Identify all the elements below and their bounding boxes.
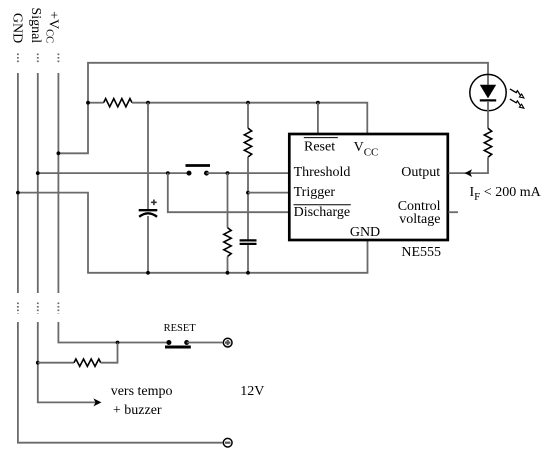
- svg-text:Output: Output: [401, 165, 440, 180]
- node junction dot x=227.5 at bottom rail: [226, 271, 230, 275]
- svg-text:RESET: RESET: [164, 323, 197, 334]
- wire GND vertical line upper: [17, 73, 19, 293]
- resistor horizontal lower: [74, 359, 101, 366]
- svg-text:Discharge: Discharge: [294, 205, 351, 220]
- wire resistor row y=362.7 left: [38, 362, 74, 364]
- wire threshold resistor branch lower: [227, 257, 229, 273]
- wire threshold resistor branch upper: [227, 173, 229, 228]
- wire resistor top rail row: [88, 102, 104, 104]
- terminal minus circle: [223, 438, 232, 447]
- resistor vertical at x=248: [244, 128, 251, 157]
- pushbutton S1 terminal dot left: [187, 171, 192, 176]
- pushbutton RESET terminal dot right: [184, 340, 189, 345]
- wire +Vcc branch to top rail: [58, 63, 488, 154]
- node junction dot at x=317.9 y=102.7 (Reset pin branch): [316, 101, 320, 105]
- node junction dot Signal line y=173.1: [36, 171, 40, 175]
- wire Reset pin stub: [317, 103, 319, 133]
- node junction dot +Vcc line: [57, 151, 61, 155]
- wire capacitor C2 lower: [247, 245, 249, 273]
- wire Signal branch Threshold row left part: [38, 172, 189, 174]
- wire electrolytic capacitor branch upper: [147, 103, 149, 209]
- pushbutton RESET contact bar: [165, 346, 191, 349]
- svg-text:+ buzzer: + buzzer: [113, 403, 162, 418]
- wire resistor down and left to Output pin: [449, 157, 489, 173]
- LED light arrow 1: [510, 89, 524, 98]
- wire +Vcc line lower to RESET button: [58, 322, 168, 343]
- capacitor C2 bottom plate: [240, 243, 257, 245]
- LED D1 triangle: [480, 85, 496, 99]
- wire Trigger row to NE555: [248, 192, 289, 194]
- wire resistor to vertical x=117.5: [101, 343, 118, 363]
- node junction dot at x=88 y=102.7: [86, 101, 90, 105]
- node junction dot at x=167.8 y=173.1: [166, 171, 170, 175]
- wire Control voltage stub: [449, 211, 459, 213]
- wire GND line lower to minus terminal: [18, 322, 223, 443]
- wire +Vcc input line dotted break top: [57, 54, 59, 64]
- node junction dot electrolytic cap at bottom rail: [146, 271, 150, 275]
- wire Signal line dotted break lower: [37, 303, 39, 314]
- wire GND branch row y=192.6 to bottom rail: [18, 193, 368, 273]
- node junction dot at x=227.5 y=173.1: [226, 171, 230, 175]
- svg-text:Signal: Signal: [28, 7, 43, 43]
- pushbutton S1 terminal dot right: [204, 171, 209, 176]
- svg-text:IF < 200 mA: IF < 200 mA: [470, 185, 542, 203]
- svg-text:voltage: voltage: [399, 212, 440, 227]
- capacitor C1 electrolytic top plate: [139, 209, 158, 211]
- resistor vertical at x=227.5: [224, 228, 231, 257]
- wire LED to series resistor: [487, 101, 489, 128]
- wire Signal vertical line upper: [37, 73, 39, 293]
- svg-text:12V: 12V: [240, 384, 264, 399]
- wire Threshold row right part to NE555: [207, 172, 290, 174]
- svg-text:GND: GND: [350, 225, 380, 240]
- wire GND line dotted break lower: [17, 303, 19, 314]
- capacitor C1 electrolytic bottom curved plate: [139, 213, 157, 217]
- svg-text:vers tempo: vers tempo: [111, 384, 173, 399]
- node junction dot Trigger row x=248: [246, 191, 250, 195]
- wire Signal line lower with junction: [38, 322, 97, 402]
- wire from resistor to Vcc pin of NE555: [132, 103, 367, 133]
- arrowhead vers tempo pointing right: [93, 398, 101, 406]
- wire +Vcc line dotted break lower: [57, 303, 59, 314]
- node junction dot x=117.5 y=342.5: [116, 341, 120, 345]
- arrowhead on Output wire pointing left: [465, 169, 473, 177]
- LED light arrow 2: [510, 99, 524, 108]
- node junction dot x=248 at bottom rail: [246, 271, 250, 275]
- wire GND input line dotted break top: [17, 54, 19, 64]
- svg-text:GND: GND: [9, 13, 24, 43]
- node junction dot at x=248 y=102.7: [246, 101, 250, 105]
- svg-text:Trigger: Trigger: [294, 185, 336, 200]
- capacitor C1 plus sign: [151, 200, 157, 206]
- wire +Vcc vertical line upper: [57, 73, 59, 293]
- LED D1 circle: [470, 74, 506, 110]
- IC U1 NE555 box: [289, 134, 448, 240]
- pushbutton RESET terminal dot left: [166, 340, 171, 345]
- LED D1 cathode bar: [480, 99, 496, 101]
- resistor horizontal top: [104, 99, 132, 107]
- resistor LED series vertical: [484, 128, 491, 157]
- terminal plus circle: [223, 338, 232, 347]
- svg-text:Reset: Reset: [304, 140, 335, 155]
- node junction dot at x=148 y=102.7: [146, 101, 150, 105]
- node junction dot Signal lower y=362.7: [36, 361, 40, 365]
- node junction dot GND line y=192.6: [16, 191, 20, 195]
- wire from rail y=102.7 down to vertical resistor: [247, 103, 249, 128]
- wire from resistor to capacitor at x=248: [247, 157, 249, 239]
- pushbutton S1 actuator bar: [186, 164, 211, 167]
- svg-text:+VCC: +VCC: [43, 11, 60, 43]
- wire Discharge loop from x=167.8 down and right to NE555: [168, 173, 289, 212]
- wire RESET button to plus terminal: [187, 342, 223, 344]
- wire Signal input line dotted break top: [37, 54, 39, 64]
- wire electrolytic capacitor branch lower: [147, 216, 149, 273]
- capacitor C2 top plate: [240, 239, 257, 241]
- svg-text:NE555: NE555: [401, 245, 441, 260]
- svg-text:Threshold: Threshold: [294, 165, 351, 180]
